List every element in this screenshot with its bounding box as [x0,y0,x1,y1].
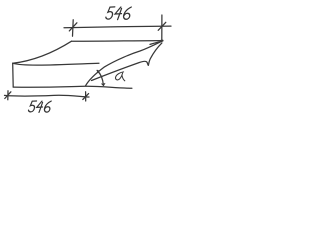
plate front left edge [12,63,15,87]
angle arrow upper barb [150,41,162,44]
angle label alpha [115,72,124,81]
bottom dimension left tick [5,92,11,99]
angle arrow shaft steep end to tip [148,43,162,65]
angle arc bottom arrowhead [102,83,106,86]
top dimension left extension line [72,20,75,36]
bottom dimension right extension line [85,92,87,101]
plate top face back edge [72,40,162,43]
tip junction [161,40,163,42]
bottom label 546 [28,101,51,112]
top dimension line [64,26,171,28]
angle arc top arrowhead [97,70,100,73]
plate inclined edge to right tip [86,41,162,86]
plate front top edge [13,63,99,65]
ground line (plate bottom edge) [13,86,132,88]
bottom dimension left extension line [7,91,9,100]
angle arc [97,71,103,86]
angle arrow shaft [92,61,149,80]
top label 546 [105,7,131,20]
top dimension right tick [158,22,166,30]
top dimension left tick [69,23,77,31]
plate top face left edge [13,41,72,63]
bottom dimension right tick [83,94,89,100]
bottom dimension line [5,95,90,97]
top dimension right extension line [161,15,163,40]
